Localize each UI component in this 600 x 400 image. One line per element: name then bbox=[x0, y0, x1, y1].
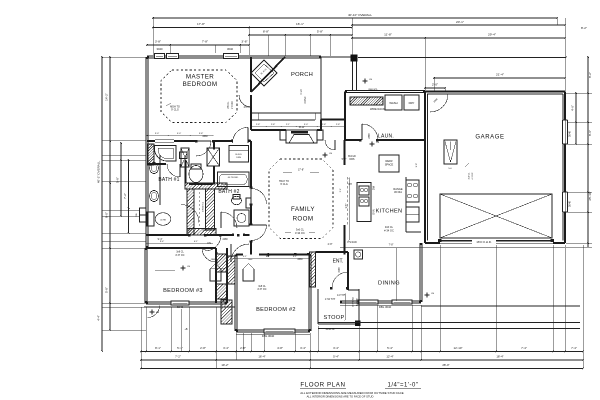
svg-text:KITCHEN: KITCHEN bbox=[376, 209, 403, 215]
svg-text:DINING: DINING bbox=[378, 281, 400, 287]
svg-text:12'-10": 12'-10" bbox=[454, 346, 463, 350]
svg-text:15 TREAD: 15 TREAD bbox=[352, 297, 355, 307]
svg-text:3'-8": 3'-8" bbox=[241, 40, 247, 44]
svg-text:2468: 2468 bbox=[222, 239, 228, 241]
svg-text:BEDROOM #3: BEDROOM #3 bbox=[163, 288, 203, 294]
svg-text:4'-1": 4'-1" bbox=[293, 256, 298, 258]
svg-text:BATH #1: BATH #1 bbox=[158, 177, 179, 183]
svg-text:6'-1": 6'-1" bbox=[203, 229, 208, 232]
svg-text:DRY: DRY bbox=[409, 101, 415, 105]
svg-text:2'-8": 2'-8" bbox=[256, 124, 261, 126]
svg-text:# 37 OC: # 37 OC bbox=[176, 254, 185, 257]
svg-text:4'-8": 4'-8" bbox=[277, 346, 283, 350]
svg-text:7'-4": 7'-4" bbox=[571, 346, 577, 350]
svg-text:3'-4": 3'-4" bbox=[300, 346, 306, 350]
svg-text:2868: 2868 bbox=[217, 259, 219, 265]
svg-text:25'-10": 25'-10" bbox=[588, 191, 592, 200]
svg-text:20'-1": 20'-1" bbox=[456, 20, 464, 24]
svg-text:5'-1": 5'-1" bbox=[177, 346, 183, 350]
svg-text:ENT.: ENT. bbox=[333, 259, 344, 265]
svg-text:2'-8": 2'-8" bbox=[271, 124, 276, 126]
svg-text:1/4"=1'-0": 1/4"=1'-0" bbox=[388, 382, 419, 388]
svg-text:2'-1": 2'-1" bbox=[340, 188, 342, 193]
svg-text:6'-1": 6'-1" bbox=[266, 256, 271, 258]
svg-text:3040: 3040 bbox=[568, 130, 572, 137]
svg-text:ALL EXTERIOR DIMENSIONS ARE ME: ALL EXTERIOR DIMENSIONS ARE MEASURED FRO… bbox=[300, 391, 404, 395]
svg-text:1'-54 TYP: 1'-54 TYP bbox=[325, 298, 336, 301]
svg-text:2'6 CL: 2'6 CL bbox=[227, 101, 230, 109]
svg-text:7'-2": 7'-2" bbox=[175, 355, 181, 359]
svg-text:3x6 CL: 3x6 CL bbox=[296, 228, 305, 232]
svg-text:14 TYP: 14 TYP bbox=[337, 294, 345, 297]
svg-text:B-FLD: B-FLD bbox=[236, 154, 243, 156]
svg-text:2868: 2868 bbox=[369, 133, 371, 139]
svg-text:5'-0": 5'-0" bbox=[177, 133, 182, 135]
svg-text:PORCH: PORCH bbox=[291, 72, 313, 78]
svg-text:FLOOR PLAN: FLOOR PLAN bbox=[300, 381, 345, 388]
svg-text:9' CLG: 9' CLG bbox=[280, 183, 288, 186]
svg-text:5'-1": 5'-1" bbox=[243, 256, 248, 258]
svg-text:3040: 3040 bbox=[157, 47, 163, 51]
svg-text:5'-4": 5'-4" bbox=[333, 355, 339, 359]
svg-text:3040: 3040 bbox=[227, 47, 233, 51]
svg-text:8'-0": 8'-0" bbox=[105, 212, 109, 218]
svg-text:# 34 OC: # 34 OC bbox=[295, 231, 305, 235]
svg-text:19'-2": 19'-2" bbox=[221, 363, 228, 367]
svg-text:CONC: CONC bbox=[304, 96, 307, 103]
svg-text:REFR: REFR bbox=[385, 159, 392, 163]
svg-text:BEDROOM: BEDROOM bbox=[183, 81, 218, 88]
svg-text:DRS: DRS bbox=[236, 157, 241, 159]
svg-text:+B: +B bbox=[185, 328, 188, 331]
svg-text:5'-4": 5'-4" bbox=[387, 346, 393, 350]
svg-text:30 DIA: 30 DIA bbox=[394, 190, 402, 194]
svg-text:16'0 O.H.D.: 16'0 O.H.D. bbox=[476, 240, 492, 244]
svg-text:12'-4": 12'-4" bbox=[386, 355, 393, 359]
svg-text:3'-4": 3'-4" bbox=[223, 346, 229, 350]
svg-text:4 1/2: 4 1/2 bbox=[300, 89, 303, 95]
svg-text:8'-8": 8'-8" bbox=[263, 30, 269, 34]
svg-text:17'-8": 17'-8" bbox=[197, 22, 205, 26]
svg-text:MASTER: MASTER bbox=[186, 74, 214, 81]
svg-text:LIN: LIN bbox=[207, 241, 211, 245]
svg-text:3x6 CL: 3x6 CL bbox=[469, 172, 471, 180]
svg-text:2'-8": 2'-8" bbox=[322, 124, 327, 126]
svg-text:P'S RAD: P'S RAD bbox=[347, 241, 357, 244]
svg-text:8'-2": 8'-2" bbox=[588, 72, 592, 78]
svg-text:WIRE RACK: WIRE RACK bbox=[370, 107, 385, 111]
svg-text:16'-1": 16'-1" bbox=[296, 22, 304, 26]
svg-text:2'-0": 2'-0" bbox=[432, 83, 438, 87]
svg-text:GARAGE: GARAGE bbox=[475, 135, 504, 141]
svg-text:5'-8": 5'-8" bbox=[116, 177, 120, 183]
svg-text:4'-6": 4'-6" bbox=[571, 105, 575, 111]
svg-text:7'-8": 7'-8" bbox=[202, 40, 208, 44]
svg-text:40 HB: 40 HB bbox=[160, 220, 166, 222]
svg-text:3068: 3068 bbox=[339, 267, 341, 273]
svg-text:US: US bbox=[369, 79, 373, 81]
svg-text:2'-8": 2'-8" bbox=[328, 243, 333, 246]
svg-text:SPACE: SPACE bbox=[385, 162, 394, 166]
svg-text:STOOP: STOOP bbox=[324, 315, 345, 321]
svg-text:DRS: DRS bbox=[349, 158, 354, 161]
svg-text:3x6 CL: 3x6 CL bbox=[385, 225, 394, 229]
svg-text:2868 WTL: 2868 WTL bbox=[368, 89, 378, 91]
svg-text:4'-4": 4'-4" bbox=[97, 315, 101, 321]
svg-text:WASH: WASH bbox=[389, 101, 397, 105]
svg-text:4x44 JB: 4x44 JB bbox=[326, 328, 335, 331]
svg-text:2868: 2868 bbox=[202, 136, 208, 138]
svg-text:16'-4": 16'-4" bbox=[258, 355, 265, 359]
svg-text:7'-2": 7'-2" bbox=[123, 193, 127, 199]
svg-text:DW: DW bbox=[372, 185, 376, 190]
svg-text:3'-0": 3'-0" bbox=[304, 124, 309, 126]
svg-text:14 RISE: 14 RISE bbox=[357, 298, 359, 306]
svg-text:LAUN.: LAUN. bbox=[378, 134, 394, 140]
svg-text:40'-10" OVERALL: 40'-10" OVERALL bbox=[348, 13, 372, 17]
svg-text:7'-4": 7'-4" bbox=[521, 346, 527, 350]
svg-text:ALL INTERIOR DIMENSIONS ARE TO: ALL INTERIOR DIMENSIONS ARE TO FACE OF S… bbox=[307, 394, 374, 398]
svg-text:BEDROOM #2: BEDROOM #2 bbox=[256, 307, 296, 313]
svg-text:9'-4": 9'-4" bbox=[160, 241, 165, 243]
svg-text:3 ROD CL: 3 ROD CL bbox=[203, 201, 205, 212]
svg-text:8'-6": 8'-6" bbox=[588, 130, 592, 136]
svg-text:US: US bbox=[376, 142, 380, 144]
svg-text:3'-4": 3'-4" bbox=[333, 346, 339, 350]
svg-text:3'-8": 3'-8" bbox=[199, 133, 204, 135]
svg-text:60 TB 30D: 60 TB 30D bbox=[228, 177, 239, 179]
svg-text:2'-8": 2'-8" bbox=[336, 124, 341, 126]
svg-text:6'-1": 6'-1" bbox=[194, 241, 199, 243]
svg-text:# 34 OC: # 34 OC bbox=[384, 228, 394, 232]
svg-text:5'-8": 5'-8" bbox=[317, 30, 323, 34]
svg-text:18'-4": 18'-4" bbox=[496, 355, 503, 359]
svg-text:29'-4": 29'-4" bbox=[488, 33, 496, 37]
svg-text:US: US bbox=[431, 293, 435, 295]
svg-text:21'-4": 21'-4" bbox=[496, 73, 504, 77]
svg-text:2'-1": 2'-1" bbox=[286, 124, 291, 126]
svg-text:2'-8": 2'-8" bbox=[200, 346, 206, 350]
svg-text:US: US bbox=[329, 153, 333, 155]
svg-text:9' CLG: 9' CLG bbox=[171, 109, 179, 112]
svg-text:# 3 OC: # 3 OC bbox=[472, 172, 474, 179]
svg-text:14'-2": 14'-2" bbox=[105, 93, 109, 101]
svg-text:11'-8": 11'-8" bbox=[384, 33, 392, 37]
svg-text:# 3 OC: # 3 OC bbox=[231, 101, 234, 109]
svg-text:40'-2" OVERALL: 40'-2" OVERALL bbox=[97, 161, 101, 184]
svg-text:OH: OH bbox=[348, 183, 352, 186]
svg-text:2'6 CL: 2'6 CL bbox=[244, 106, 252, 109]
svg-text:BATH #2: BATH #2 bbox=[218, 189, 239, 195]
svg-text:2868: 2868 bbox=[297, 259, 303, 261]
svg-text:36H: 36H bbox=[136, 213, 138, 217]
svg-text:5'-8": 5'-8" bbox=[342, 158, 347, 161]
svg-text:5'-8": 5'-8" bbox=[105, 287, 109, 293]
svg-text:FAMILY: FAMILY bbox=[291, 206, 315, 213]
svg-text:ROOM: ROOM bbox=[293, 216, 314, 223]
svg-text:# 37 OC: # 37 OC bbox=[258, 288, 267, 291]
svg-text:8'-1": 8'-1" bbox=[155, 346, 161, 350]
svg-text:US: US bbox=[187, 266, 191, 268]
svg-text:8'-2": 8'-2" bbox=[581, 26, 587, 30]
svg-text:17'-8": 17'-8" bbox=[298, 169, 304, 172]
svg-text:3040: 3040 bbox=[568, 200, 572, 207]
svg-text:9'-8": 9'-8" bbox=[416, 163, 418, 168]
svg-text:3'-0": 3'-0" bbox=[155, 133, 160, 135]
svg-text:7'-8": 7'-8" bbox=[389, 244, 394, 247]
svg-text:28'-0": 28'-0" bbox=[442, 363, 449, 367]
svg-text:3'-8": 3'-8" bbox=[155, 40, 161, 44]
